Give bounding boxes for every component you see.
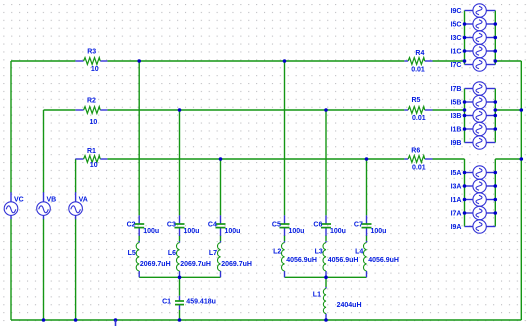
svg-text:100u: 100u (330, 228, 346, 235)
voltage source VA (69, 192, 88, 219)
inductor L2 (273, 241, 317, 277)
current source I9A (451, 220, 496, 233)
wire phase C from R3 to R4 (107, 60, 404, 62)
junction bar2 to L1 (324, 276, 328, 280)
wire branch C2 cap-coil link (138, 235, 140, 241)
wire branch C5 cap-coil link (284, 235, 286, 241)
wire VC rail lower (10, 219, 12, 320)
svg-text:C2: C2 (127, 221, 136, 228)
current source I3B (451, 109, 496, 122)
svg-text:R3: R3 (87, 49, 96, 56)
svg-text:L1: L1 (313, 292, 321, 299)
resistor R4 (404, 50, 432, 73)
svg-text:100u: 100u (225, 228, 241, 235)
svg-text:4056.9uH: 4056.9uH (286, 257, 317, 264)
svg-text:I9A: I9A (451, 224, 462, 231)
wire phase C from VC rail to R3 (11, 60, 75, 62)
wire phase A from R6 to bank A (433, 158, 465, 160)
svg-text:4056.9uH: 4056.9uH (328, 257, 359, 264)
junction bus L1 (324, 318, 328, 322)
inductor L7 (209, 241, 252, 277)
wire branch C4 cap-coil link (220, 235, 222, 241)
junction phase A to C7 branch (365, 157, 369, 161)
svg-text:100u: 100u (184, 228, 200, 235)
svg-text:L5: L5 (128, 250, 136, 257)
junction bank C right bus tap (494, 59, 498, 63)
wire phase A from R1 to R6 (107, 158, 404, 160)
svg-text:I5A: I5A (451, 170, 462, 177)
junction bank B left bus tap (463, 114, 467, 118)
svg-text:C3: C3 (167, 221, 176, 228)
svg-text:L3: L3 (315, 248, 323, 255)
svg-text:L6: L6 (168, 250, 176, 257)
capacitor C2 (127, 215, 160, 235)
wire branch C3 cap-coil link (179, 235, 181, 241)
junction bank C right bus tap (494, 36, 498, 40)
capacitor C7 (354, 215, 387, 235)
junction bus VB (42, 318, 46, 322)
svg-text:459.418u: 459.418u (186, 299, 216, 306)
wire phase C from R4 to bank C (433, 60, 465, 62)
wire return wire right edge (520, 61, 522, 320)
wire phase B from R5 to bank B (433, 109, 465, 111)
svg-text:R4: R4 (415, 50, 424, 57)
svg-text:VA: VA (79, 196, 88, 203)
junction bank A left bus tap (463, 184, 467, 188)
svg-text:I5B: I5B (451, 100, 462, 107)
svg-text:I7A: I7A (451, 211, 462, 218)
wire VB rail lower (43, 219, 45, 320)
junction bank C left bus tap (463, 59, 467, 63)
current source I1A (451, 193, 496, 206)
svg-text:I5C: I5C (451, 22, 462, 29)
svg-text:I3B: I3B (451, 113, 462, 120)
svg-text:I7C: I7C (451, 62, 462, 69)
wire branch C6 cap-coil link (325, 235, 327, 241)
svg-text:C7: C7 (354, 221, 363, 228)
resistor R5 (404, 97, 432, 122)
voltage source VC (4, 192, 24, 219)
svg-text:C1: C1 (162, 299, 171, 306)
svg-text:I9B: I9B (451, 140, 462, 147)
bank A output wire (495, 158, 521, 160)
current source I1B (451, 122, 496, 135)
junction phase B to C6 branch (324, 108, 328, 112)
capacitor C5 (272, 215, 305, 235)
bank A left bus (464, 159, 466, 227)
svg-text:0.01: 0.01 (412, 164, 426, 171)
wire branch C6 drop (325, 110, 327, 215)
junction bank C left bus tap (463, 22, 467, 26)
svg-text:100u: 100u (289, 228, 305, 235)
wire VA rail upper (75, 159, 77, 193)
current source I7C (451, 58, 496, 71)
wire ground bus (11, 319, 521, 321)
junction bar1 to C1 (178, 276, 182, 280)
wire VB rail upper (43, 110, 45, 193)
svg-text:I1A: I1A (451, 197, 462, 204)
junction bank B right bus tap (494, 127, 498, 131)
wire C1 bottom link (179, 310, 181, 320)
wire branch C5 drop (284, 61, 286, 215)
junction bank A right bus tap (494, 211, 498, 215)
resistor R3 (75, 49, 107, 74)
svg-text:L2: L2 (273, 248, 281, 255)
capacitor C4 (208, 215, 241, 235)
svg-text:I9C: I9C (451, 8, 462, 15)
capacitor C3 (167, 215, 200, 235)
current source I7A (451, 206, 496, 219)
junction bank B left bus tap (463, 108, 467, 112)
inductor L4 (355, 241, 399, 277)
wire branch C3 drop (179, 110, 181, 215)
junction bank C left bus tap (463, 49, 467, 53)
wire VC rail upper (10, 61, 12, 193)
junction bank C right bus tap (494, 22, 498, 26)
svg-text:4056.9uH: 4056.9uH (368, 257, 399, 264)
junction bank A right bus tap (494, 171, 498, 175)
svg-text:10: 10 (91, 66, 99, 73)
junction bank B right bus tap (494, 108, 498, 112)
svg-text:0.01: 0.01 (412, 115, 426, 122)
svg-text:10: 10 (90, 162, 98, 169)
junction bank A right bus tap (494, 198, 498, 202)
junction phase C to C5 branch (283, 59, 287, 63)
junction bank A left bus tap (463, 171, 467, 175)
junction right edge bank B (520, 108, 524, 112)
current source I9C (451, 4, 496, 17)
svg-text:I1B: I1B (451, 127, 462, 134)
junction bus VA (74, 318, 78, 322)
svg-text:2069.7uH: 2069.7uH (140, 261, 171, 268)
junction phase A to C4 branch (219, 157, 223, 161)
svg-text:2069.7uH: 2069.7uH (180, 261, 211, 268)
wire phase A from VA rail to R1 (74, 158, 76, 160)
resistor R1 (75, 148, 107, 169)
inductor L5 (128, 241, 171, 277)
capacitor C1 (162, 296, 216, 310)
current source I1C (451, 44, 496, 57)
svg-text:L4: L4 (355, 248, 363, 255)
capacitor C6 (313, 215, 346, 235)
bank C output wire (495, 60, 521, 62)
ground (115, 320, 117, 326)
junction bank A left bus tap (463, 198, 467, 202)
bank C left bus (464, 11, 466, 65)
junction bank A left bus tap (463, 211, 467, 215)
svg-text:100u: 100u (371, 228, 387, 235)
svg-text:VC: VC (14, 196, 24, 203)
wire phase B from R2 to R5 (107, 109, 404, 111)
inductor L6 (168, 241, 211, 277)
inductor L3 (315, 241, 359, 277)
current source I5A (451, 166, 496, 179)
wire bar group 1 (139, 276, 220, 278)
svg-text:R6: R6 (411, 147, 420, 154)
current source I3C (451, 31, 496, 44)
svg-text:R2: R2 (87, 97, 96, 104)
inductor L1 (313, 287, 362, 320)
junction phase B to C3 branch (178, 108, 182, 112)
junction bank B right bus tap (494, 100, 498, 104)
svg-text:I7B: I7B (451, 86, 462, 93)
junction bank B right bus tap (494, 114, 498, 118)
bank B right bus (494, 89, 496, 143)
current source I9B (451, 136, 496, 149)
svg-text:0.01: 0.01 (411, 66, 425, 73)
svg-text:VB: VB (47, 196, 57, 203)
svg-text:R5: R5 (412, 97, 421, 104)
junction bus C1 (178, 318, 182, 322)
wire L1 top link (325, 277, 327, 287)
bank C right bus (494, 11, 496, 65)
wire phase B from VB rail to R2 (44, 109, 76, 111)
current source I3A (451, 179, 496, 192)
wire VA rail lower (75, 219, 77, 320)
bank B output wire (495, 109, 521, 111)
current source I5B (451, 95, 496, 108)
junction right edge bank A (520, 157, 524, 161)
svg-text:C4: C4 (208, 221, 217, 228)
junction bank C left bus tap (463, 36, 467, 40)
junction bus ground tap (114, 318, 118, 322)
current source I7B (451, 82, 496, 95)
svg-text:L7: L7 (209, 250, 217, 257)
resistor R2 (75, 97, 107, 126)
svg-text:2404uH: 2404uH (337, 302, 362, 309)
svg-text:C6: C6 (313, 221, 322, 228)
junction phase C to C2 branch (137, 59, 141, 63)
bank A right bus (494, 159, 496, 227)
svg-text:10: 10 (90, 119, 98, 126)
bank B left bus (464, 89, 466, 143)
wire branch C7 drop (366, 159, 368, 215)
svg-text:I3C: I3C (451, 35, 462, 42)
wire branch C4 drop (220, 159, 222, 215)
wire branch C7 cap-coil link (366, 235, 368, 241)
svg-text:I1C: I1C (451, 49, 462, 56)
svg-text:2069.7uH: 2069.7uH (221, 261, 252, 268)
junction bank A right bus tap (494, 184, 498, 188)
wire C1 top link (179, 277, 181, 296)
svg-text:100u: 100u (143, 228, 159, 235)
junction bank B left bus tap (463, 127, 467, 131)
current source I5C (451, 17, 496, 30)
resistor R6 (404, 147, 432, 171)
junction bank C right bus tap (494, 49, 498, 53)
svg-text:R1: R1 (87, 148, 96, 155)
svg-text:C5: C5 (272, 221, 281, 228)
wire branch C2 drop (138, 61, 140, 215)
svg-text:I3A: I3A (451, 184, 462, 191)
junction bank B left bus tap (463, 100, 467, 104)
wire bar group 2 (285, 276, 367, 278)
voltage source VB (37, 192, 57, 219)
